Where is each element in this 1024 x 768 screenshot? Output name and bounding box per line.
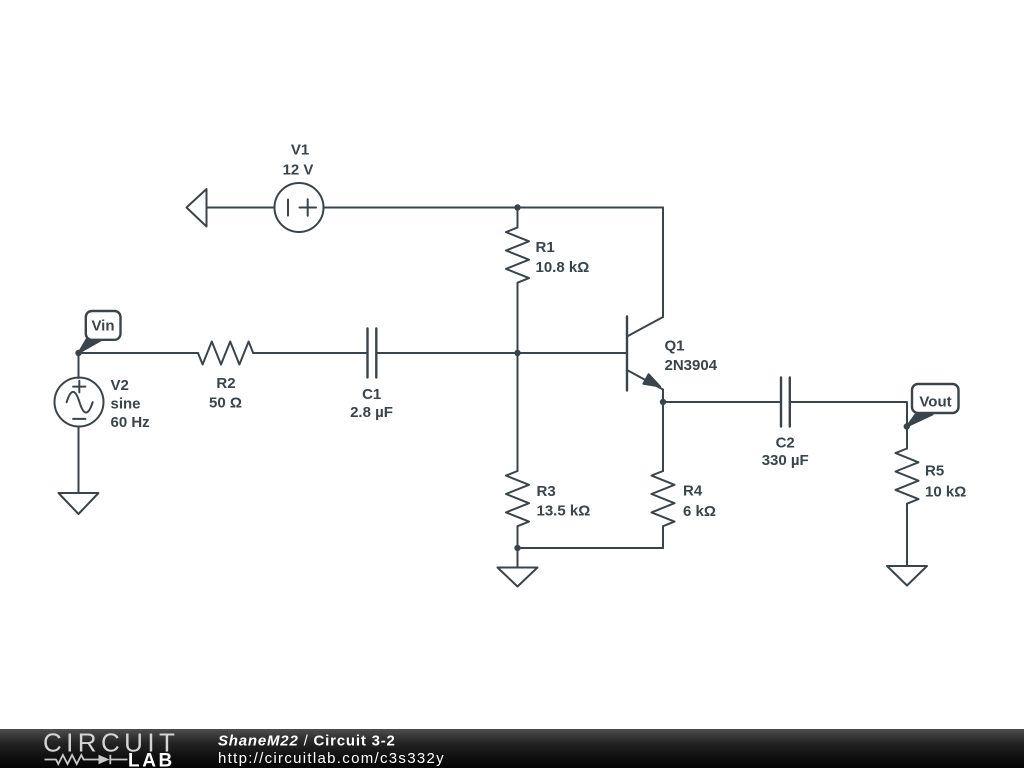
label R4 value	[683, 483, 716, 521]
logo resistor-diode squiggle	[45, 755, 128, 764]
power flag V1 net arrow	[187, 189, 207, 227]
svg-text:13.5 kΩ: 13.5 kΩ	[537, 503, 591, 520]
ground (V2)	[59, 493, 99, 514]
wire V1 to collector rail	[324, 207, 664, 209]
label R5 value	[925, 463, 966, 501]
net label Vin	[79, 311, 121, 353]
node base junction	[514, 350, 520, 356]
label R1 value	[536, 239, 590, 276]
svg-text:C2: C2	[776, 435, 795, 452]
node at top of R1	[514, 204, 520, 210]
svg-text:2.8 µF: 2.8 µF	[350, 404, 393, 421]
capacitor C1	[368, 329, 377, 378]
V1 minus terminal bar	[287, 200, 289, 216]
svg-text:R5: R5	[925, 463, 944, 480]
wire R4 to ground node	[518, 547, 664, 549]
svg-text:2N3904: 2N3904	[665, 357, 718, 374]
svg-text:R1: R1	[536, 239, 555, 256]
label R3 value	[537, 483, 591, 520]
transistor Q1	[627, 208, 663, 403]
wire C2 to Vout corner	[790, 402, 907, 449]
svg-text:sine: sine	[111, 396, 141, 413]
node emitter junction	[660, 399, 666, 405]
svg-text:10.8 kΩ: 10.8 kΩ	[536, 259, 590, 276]
V1 plus sign	[300, 199, 317, 216]
svg-text:50 Ω: 50 Ω	[209, 395, 242, 412]
resistor R2	[198, 342, 253, 365]
wire Vin node to R2	[79, 352, 199, 354]
svg-text:C1: C1	[362, 386, 381, 403]
label V2 value	[111, 377, 150, 431]
resistor R5	[896, 449, 919, 567]
svg-text:Vout: Vout	[919, 394, 951, 411]
ground (bottom center)	[498, 548, 538, 587]
label C1 value	[350, 386, 393, 421]
svg-text:12 V: 12 V	[283, 162, 314, 179]
label Q1 value	[665, 338, 718, 375]
svg-text:Vin: Vin	[91, 318, 114, 335]
node Vin	[75, 350, 81, 356]
label C2 value	[762, 435, 809, 470]
svg-text:6 kΩ: 6 kΩ	[683, 503, 716, 520]
resistor R3	[506, 353, 529, 548]
wire R2 to C1	[253, 352, 367, 354]
wire emitter to C2	[663, 401, 781, 403]
svg-text:V2: V2	[111, 377, 129, 394]
resistor R1	[506, 208, 529, 354]
svg-text:V1: V1	[291, 142, 309, 159]
ground (right)	[887, 566, 927, 586]
voltage source V1 body	[275, 183, 324, 232]
svg-text:10 kΩ: 10 kΩ	[925, 484, 966, 501]
resistor R4	[652, 402, 675, 548]
voltage source V2 body	[55, 353, 104, 493]
svg-text:R3: R3	[537, 483, 556, 500]
label V1 value	[283, 142, 314, 179]
svg-text:R4: R4	[683, 483, 703, 500]
svg-text:R2: R2	[216, 375, 235, 392]
node ground junction	[514, 545, 520, 551]
svg-text:60 Hz: 60 Hz	[111, 414, 150, 431]
svg-text:LAB: LAB	[128, 751, 175, 768]
svg-text:Q1: Q1	[665, 338, 685, 355]
net label Vout	[907, 384, 959, 427]
wire flag to V1	[207, 207, 275, 209]
svg-text:http://circuitlab.com/c3s332y: http://circuitlab.com/c3s332y	[218, 750, 445, 767]
capacitor C2	[781, 378, 790, 427]
svg-text:330 µF: 330 µF	[762, 452, 809, 469]
node Vout	[904, 423, 910, 429]
label R2 value	[209, 375, 242, 412]
svg-text:ShaneM22 / Circuit 3-2: ShaneM22 / Circuit 3-2	[218, 732, 396, 749]
wire C1 to Q1 base	[377, 352, 627, 354]
